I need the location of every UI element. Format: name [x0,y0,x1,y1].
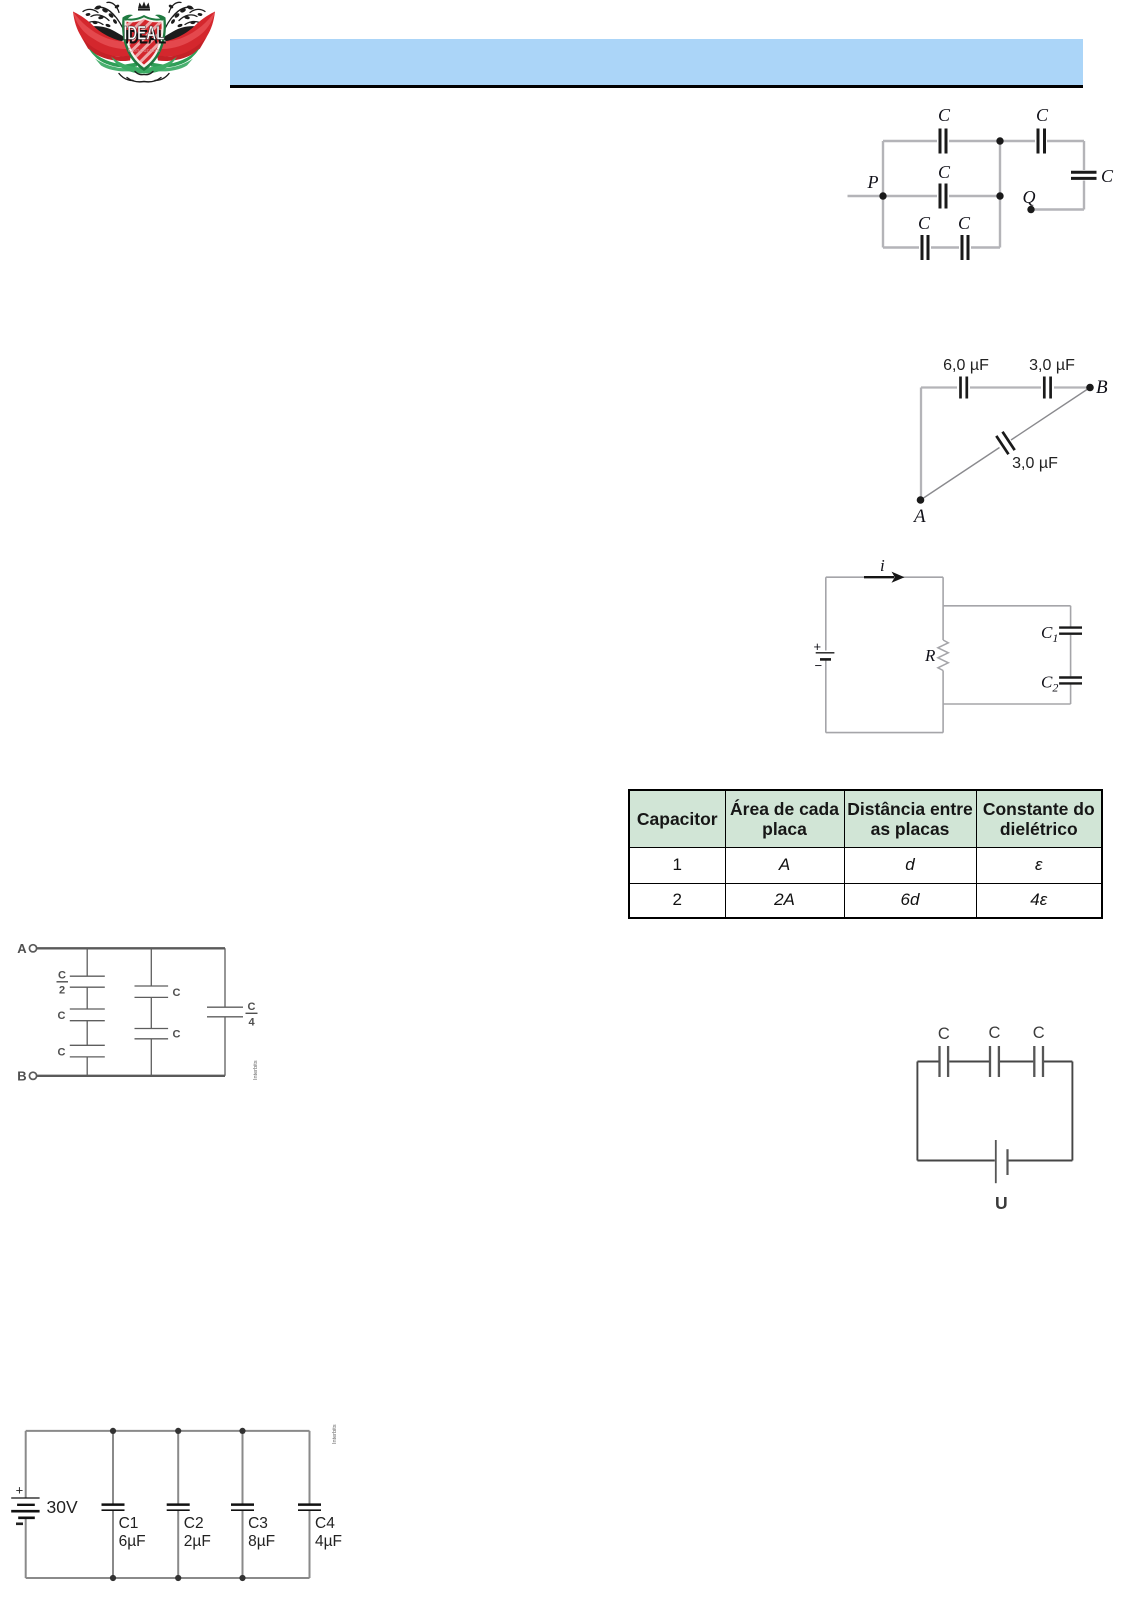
node A [917,496,925,504]
capacitor C 2nd (plates) [990,1046,999,1077]
svg-text:C: C [989,1024,1001,1042]
battery U short plate [1006,1149,1008,1175]
wire mid rail [999,141,1001,248]
wire diagonal A-B [921,388,1091,501]
svg-text:C2: C2 [184,1515,204,1532]
svg-text:C: C [938,105,951,125]
battery 30V plates [11,1498,39,1518]
svg-text:4µF: 4µF [315,1533,342,1550]
svg-text:C2: C2 [1041,673,1058,695]
figure 3: battery R C1 C2 [800,550,1121,750]
junction dots bottom [110,1575,116,1581]
capacitor C mid1 (plates) [70,1009,105,1021]
wire right loop right lower [1070,684,1072,704]
wire branch2 [150,948,152,1076]
wire bottom [26,1577,310,1579]
figure 4: ladder A-B with C/2, C, C/4 [0,930,280,1095]
capacitor C bottom-left (plates) [922,235,928,260]
svg-text:i: i [880,556,885,575]
shield [122,15,166,71]
svg-text:C1: C1 [119,1515,139,1532]
svg-text:C: C [1033,1024,1045,1042]
junction dots top [110,1428,116,1434]
svg-text:Interbits: Interbits [253,1060,259,1080]
green laurel right [151,49,199,68]
capacitor 3,0 uF diagonal (plates) [996,432,1014,454]
capacitor C bottom-right (plates) [962,235,968,260]
flourish vine right black [165,2,205,28]
wire top with three gaps [917,1061,1072,1063]
capacitor C branch2 lower (plates) [135,1029,169,1039]
wire left rail [882,141,884,248]
svg-text:C: C [1036,105,1049,125]
node P [879,192,886,199]
IDEAL text [123,22,166,48]
capacitor C2 (plates) [167,1503,190,1506]
crown [138,2,150,9]
wire top row [883,140,1000,142]
capacitor C middle (plates) [940,184,946,209]
svg-text:C4: C4 [315,1515,335,1532]
terminal A [29,945,36,952]
capacitor C top-right (plates) [1038,129,1045,154]
svg-text:6µF: 6µF [119,1533,146,1550]
label minus [16,1523,23,1526]
black band left [83,26,127,42]
wire left side [916,1062,918,1161]
wire right branch [224,948,226,1076]
svg-text:C1: C1 [1041,623,1058,645]
wire left loop left with battery gap [825,577,827,732]
wire left loop top [826,576,943,578]
svg-text:C: C [938,162,951,182]
svg-text:Q: Q [1023,187,1036,207]
svg-text:4: 4 [248,1017,255,1029]
svg-text:C3: C3 [248,1515,268,1532]
wire middle row [883,195,1000,197]
wire top [37,947,225,949]
svg-text:C: C [938,1025,950,1043]
wire top-right [1000,140,1084,142]
wire top [26,1430,310,1432]
capacitor C4 (plates) [298,1503,321,1506]
wing right red [155,12,215,62]
wire bottom [37,1075,225,1077]
svg-text:C: C [918,213,931,233]
wire right rail lower [1083,181,1085,210]
capacitor 3,0 uF top (plates) [1044,377,1050,399]
svg-text:+: + [16,1483,24,1498]
bottom curls black [119,72,169,82]
capacitor C branch2 upper (plates) [135,986,169,997]
svg-text:8µF: 8µF [248,1533,275,1550]
flourish leaves right black [168,4,206,28]
wire branch C4 [309,1431,311,1578]
svg-text:R: R [924,646,936,665]
node B [1086,384,1094,392]
svg-text:−: − [815,658,823,673]
wire right loop top [943,605,1071,607]
svg-text:3,0 µF: 3,0 µF [1029,357,1075,374]
capacitor C far-right horizontal (plates) [1071,172,1097,178]
wire branch C1 [112,1431,114,1578]
wing left red [73,12,133,62]
current arrow i [864,572,905,583]
wire bottom with battery gap [917,1160,1072,1162]
wire branch C2 [177,1431,179,1578]
svg-text:C: C [248,1001,256,1013]
svg-text:P: P [867,172,879,192]
svg-text:Concursos: Concursos [128,48,160,54]
figure 2: triangle A-B capacitors [890,350,1121,535]
svg-text:3,0 µF: 3,0 µF [1012,455,1058,472]
capacitor C1 (plates) [1059,628,1082,634]
wire P lead [848,195,884,197]
terminal B [29,1072,36,1079]
capacitor C1 (plates) [102,1503,125,1506]
svg-text:Interbits: Interbits [332,1424,338,1444]
svg-text:6,0 µF: 6,0 µF [943,357,989,374]
wire top side [921,386,1090,388]
svg-text:B: B [1096,377,1108,398]
svg-text:C: C [958,213,971,233]
capacitor C 3rd (plates) [1034,1046,1043,1077]
capacitor C/2 (plates) [70,976,105,987]
black rule under header [230,85,1083,89]
svg-text:2: 2 [59,985,65,997]
capacitor C mid2 (plates) [70,1045,105,1057]
wire left with battery gap [25,1431,27,1578]
figure 1: capacitor network P-Q [840,100,1121,270]
svg-text:C: C [173,987,181,999]
svg-text:C: C [58,1047,66,1059]
logo IDEAL crest [71,0,217,83]
figure 6: 30V with C1..C4 [0,1420,350,1597]
table of capacitors [628,789,1103,919]
node Q [1027,206,1034,213]
wire left loop bottom [826,732,943,734]
capacitor C top (plates) [940,129,946,154]
svg-text:U: U [995,1193,1008,1213]
wire Q row [1031,208,1084,210]
wire left loop right with resistor [942,577,944,732]
figure 5: three C in series with U [900,1015,1121,1220]
svg-text:C: C [58,970,66,982]
flourish leaves left black [82,4,120,28]
capacitor C/4 (plates) [207,1007,243,1017]
node top junction [996,137,1003,144]
green inner swash [111,57,177,74]
wire branch C3 [242,1431,244,1578]
black band right [161,26,205,42]
capacitor 6,0 uF (plates) [961,377,967,399]
capacitor C3 (plates) [231,1503,254,1506]
flourish vine left black [83,2,123,28]
wire right side [1071,1062,1073,1161]
node middle junction [996,192,1003,199]
svg-text:C: C [173,1029,181,1041]
blue header bar [230,39,1083,85]
svg-text:IDEAL: IDEAL [123,22,164,44]
battery plates [816,653,835,660]
capacitor C 1st (plates) [940,1046,949,1077]
svg-text:2µF: 2µF [184,1533,211,1550]
wire branch1 [86,948,88,1076]
wire bottom row [883,246,1000,248]
svg-text:B: B [17,1069,26,1084]
wire left side [920,388,922,501]
battery U long plate [995,1140,997,1183]
wire right loop bottom [943,703,1071,705]
green laurel left [89,49,137,68]
svg-text:+: + [814,639,822,654]
wire right loop right upper [1070,606,1072,627]
svg-text:A: A [17,941,27,956]
svg-text:A: A [912,506,926,527]
wire right loop right middle [1070,635,1072,677]
resistor R zigzag [938,640,948,671]
wire right rail upper [1083,141,1085,170]
svg-text:C: C [1101,166,1114,186]
shield top green M ornament [123,15,166,21]
svg-text:C: C [58,1010,66,1022]
svg-text:30V: 30V [47,1497,78,1517]
capacitor C2 (plates) [1059,678,1082,684]
